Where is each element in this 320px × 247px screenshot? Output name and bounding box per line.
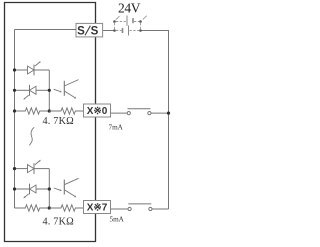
node: battery lower-right junction (139, 29, 142, 32)
svg-text:24V: 24V (118, 0, 141, 15)
switch S1 blade (128, 108, 151, 110)
switch S1 contact left (127, 112, 130, 115)
wire: internal bus top run to S/S terminal (15, 29, 77, 31)
input circuit X7: LED D4 (left-pointing) (15, 184, 50, 199)
internal common bus (left vertical) (14, 30, 16, 209)
phototransistor Q2 (54, 178, 79, 197)
wire: battery to right-side bus (solid, with corner) (142, 31, 169, 210)
battery (lower option) short plate (122, 28, 124, 33)
PLC enclosure right edge segment between X0 and X7 (95, 117, 97, 201)
switch S1 contact right (148, 112, 151, 115)
svg-text:X※7: X※7 (87, 203, 108, 214)
continuation mark (circuits omitted) (29, 127, 34, 145)
svg-text:X※0: X※0 (87, 106, 108, 117)
wire: dashed lead to upper battery (116, 21, 126, 23)
wire: D1 right corner down (48, 70, 50, 111)
svg-text:5mA: 5mA (110, 216, 125, 224)
svg-text:4. 7KΩ: 4. 7KΩ (43, 116, 75, 127)
wire: D3 right corner down (48, 169, 50, 208)
PLC enclosure right edge segment between S/S and X0 (95, 37, 97, 104)
wire: X7 terminal to switch S2 (111, 208, 128, 210)
switch S2 contact left (128, 207, 131, 210)
node: bus / D4 row (13, 187, 16, 190)
wire: dashed right vertical between battery rows (140, 23, 142, 29)
wire: dashed left vertical between battery rows (114, 23, 116, 29)
terminal X*7 (84, 201, 111, 214)
input circuit X0: LED D2 (left-pointing) (15, 85, 50, 100)
node: bus / R1a row (13, 109, 16, 112)
battery (lower option) long plate (128, 26, 130, 36)
node: R1a / vertical junction (48, 109, 51, 112)
node: right bus / S1 row (167, 112, 170, 115)
svg-text:7mA: 7mA (109, 124, 124, 132)
wire: dashed lead from lower battery (130, 30, 140, 32)
resistor R1a (input) (15, 108, 50, 114)
wire: dashed lead to lower battery (116, 30, 122, 32)
wire: switch S2 to right bus corner (152, 208, 169, 210)
resistor R2a (input) (15, 205, 50, 211)
terminal X*0 (84, 104, 111, 117)
switch S2 blade (128, 203, 151, 205)
node: battery upper-right junction (139, 20, 142, 23)
node: bus / D1 row (13, 68, 16, 71)
node: R2a / vertical junction (48, 206, 51, 209)
resistor R1b 4.7K (49, 108, 83, 114)
PLC enclosure outline (5, 3, 96, 242)
node: battery lower-left junction (113, 29, 116, 32)
node: battery upper-left junction (113, 20, 116, 23)
switch S2 contact right (149, 207, 152, 210)
input circuit X0: LED D1 (right-pointing) (15, 61, 50, 75)
wire: dashed stub up-right at upper-right node (143, 16, 147, 20)
phototransistor Q1 (54, 80, 79, 99)
svg-text:S: S (77, 25, 85, 37)
node: D4 / vertical junction (48, 187, 51, 190)
node: bus / D3 row (13, 167, 16, 170)
svg-text:4. 7KΩ: 4. 7KΩ (43, 217, 75, 228)
battery (upper option) short plate (132, 18, 134, 23)
input circuit X7: LED D3 (right-pointing) (15, 160, 50, 174)
wire: S/S terminal to battery node (solid) (103, 30, 114, 32)
wire: dashed stub up-right at upper-left node (116, 16, 120, 20)
terminal S/S (76, 23, 103, 37)
node: bus / D2 row (13, 89, 16, 92)
resistor R2b 4.7K (49, 205, 83, 211)
wire: dashed lead from upper battery (134, 21, 139, 23)
node: D2 / vertical junction (48, 89, 51, 92)
wire: switch S1 to right bus (151, 112, 168, 114)
svg-text:S: S (91, 25, 99, 37)
wire: X0 terminal to switch S1 (111, 112, 128, 114)
battery (upper option) long plate (126, 16, 128, 26)
